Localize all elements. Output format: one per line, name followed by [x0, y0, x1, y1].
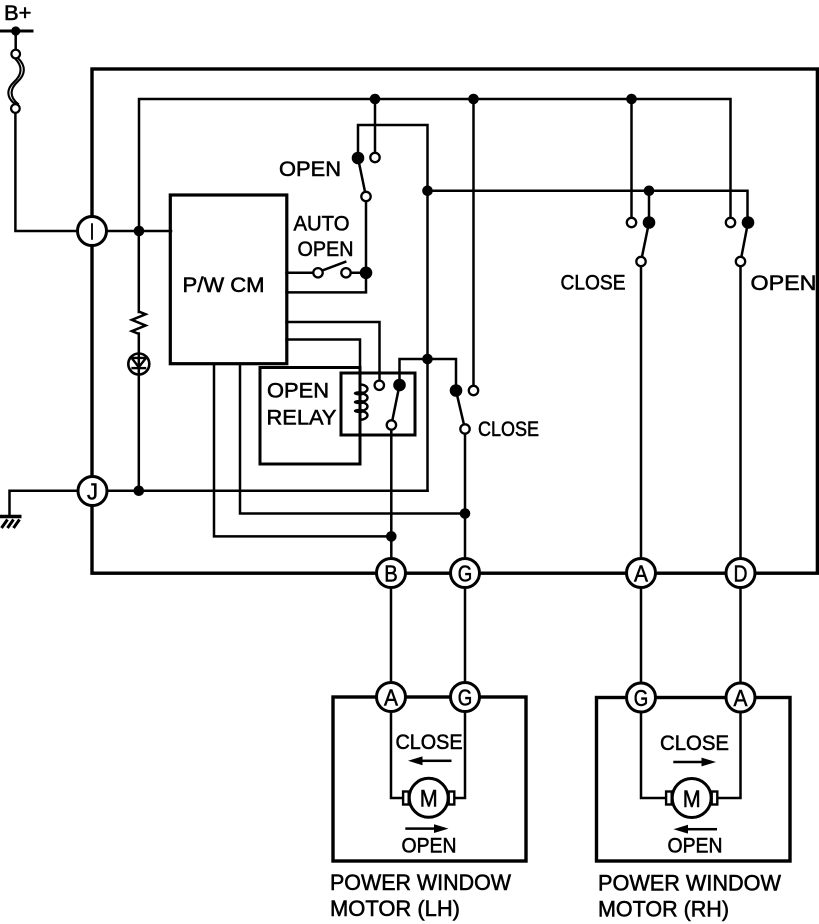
motor LH pin G	[451, 683, 480, 712]
driver OPEN switch fixed contact	[370, 153, 379, 162]
switch arm right OPEN	[741, 223, 749, 262]
driver OPEN switch moving contact dot	[352, 152, 365, 165]
fusible link terminal circle bottom	[11, 104, 20, 113]
svg-text:D: D	[734, 560, 748, 586]
wire node A to motor RH node G	[640, 587, 643, 698]
wire motor RH right lead	[717, 711, 741, 798]
junction dot LED bottom	[134, 485, 145, 496]
wire feed to passenger-close fixed contact x473	[472, 99, 475, 391]
svg-text:G: G	[634, 685, 649, 711]
node J	[78, 477, 107, 506]
junction dot bus y99 x473	[468, 94, 479, 105]
svg-text:A: A	[634, 560, 648, 586]
motor RH M2	[666, 779, 717, 818]
svg-text:OPEN: OPEN	[267, 379, 329, 403]
motor RH pin G	[627, 683, 656, 712]
wire right OPEN down to node D	[739, 262, 742, 574]
wire AUTO OPEN row right	[351, 272, 367, 275]
svg-text:A: A	[384, 684, 398, 710]
right CLOSE pole contact	[636, 257, 645, 266]
switch arm relay	[391, 385, 399, 425]
right OPEN moving contact dot	[742, 216, 755, 229]
switch arm passenger CLOSE	[456, 391, 465, 430]
svg-text:AUTO: AUTO	[294, 212, 350, 236]
wire stub to right CLOSE moving contact	[648, 191, 651, 223]
control unit outer box	[92, 69, 817, 573]
junction dot bus y99 x631	[626, 94, 637, 105]
svg-text:CLOSE: CLOSE	[561, 271, 626, 295]
wire motor LH right lead	[455, 711, 466, 798]
wire row y190 to right switches	[428, 191, 748, 223]
AUTO OPEN switch common dot	[360, 267, 373, 280]
junction dot row y190 x649	[644, 186, 655, 197]
AUTO OPEN switch left contact	[313, 268, 322, 277]
svg-text:P/W CM: P/W CM	[183, 274, 265, 297]
wire B+ to fusible link	[14, 31, 17, 50]
wire bracket from OPEN contact over to x427 down to J bus	[358, 125, 428, 491]
right CLOSE moving contact dot	[643, 216, 656, 229]
wire D from P/W CM to relay coil	[287, 340, 361, 385]
fusible link F1 curve 2	[12, 58, 24, 104]
motor LH M1	[403, 778, 454, 817]
resistor R1	[132, 312, 146, 334]
junction dot node I branch	[134, 226, 145, 237]
wire node D to motor RH node A	[739, 587, 742, 698]
wire motor RH left lead	[641, 711, 666, 798]
svg-text:MOTOR (LH): MOTOR (LH)	[330, 896, 460, 921]
svg-text:I: I	[90, 218, 95, 244]
svg-text:CLOSE: CLOSE	[396, 730, 463, 754]
junction dot bus y99 x375	[370, 94, 381, 105]
svg-text:A: A	[734, 685, 748, 711]
wire node I branch down to resistor	[138, 231, 141, 312]
relay fixed contact	[375, 381, 384, 390]
power window motor LH box	[333, 697, 526, 861]
fusible link terminal circle top	[11, 50, 20, 59]
node D	[726, 559, 755, 588]
wire AUTO OPEN row left	[287, 272, 315, 275]
wire resistor to LED to ground bus	[138, 334, 141, 491]
wire feed to driver OPEN switch fixed contact	[374, 99, 377, 158]
wire OPEN switch pole down to AUTO OPEN row	[287, 197, 367, 293]
relay pole contact	[387, 420, 396, 429]
svg-text:CLOSE: CLOSE	[660, 731, 729, 755]
passenger CLOSE fixed contact	[469, 386, 478, 395]
fusible link F1 curve 1	[8, 58, 20, 104]
wire right CLOSE down to node A	[640, 262, 643, 574]
svg-text:CLOSE: CLOSE	[478, 417, 539, 441]
right OPEN pole contact	[736, 257, 745, 266]
arrow motor RH open (left)	[674, 825, 718, 834]
junction dot relay row y359	[422, 354, 433, 365]
wire node B to motor LH node A	[390, 587, 393, 697]
arrow motor LH close (left)	[408, 756, 452, 765]
junction dot row y190 x427	[422, 186, 433, 197]
B+ terminal bar	[0, 30, 32, 33]
arrow motor RH close (right)	[673, 758, 716, 767]
svg-text:MOTOR (RH): MOTOR (RH)	[598, 897, 729, 922]
motor LH pin A	[377, 683, 406, 712]
power window motor RH box	[597, 698, 791, 862]
svg-text:M: M	[420, 786, 438, 813]
node B	[377, 559, 406, 588]
node A	[627, 559, 656, 588]
svg-text:OPEN: OPEN	[402, 834, 457, 858]
node I	[78, 217, 107, 246]
svg-text:B: B	[384, 560, 398, 586]
svg-text:POWER WINDOW: POWER WINDOW	[598, 871, 781, 896]
svg-text:OPEN: OPEN	[751, 271, 817, 295]
wire ground bus from J to x427	[10, 491, 428, 516]
open relay inner box K1	[341, 373, 415, 435]
wire feed to right CLOSE switch fixed contact x631	[630, 99, 633, 223]
open relay outer box	[260, 368, 360, 465]
motor RH pin A	[726, 683, 755, 712]
wire node G to motor LH node G	[464, 587, 467, 697]
wire P/W CM pin down x214 to row y536	[214, 364, 391, 537]
passenger CLOSE moving contact dot	[450, 384, 463, 397]
wire fusible link to node I	[15, 104, 171, 231]
wire bus y99 from x139 to right open switch	[139, 99, 731, 231]
wire motor LH left lead	[391, 711, 403, 798]
wire passenger CLOSE down to node G	[464, 429, 467, 573]
relay coil L1	[354, 385, 367, 420]
passenger CLOSE pole contact	[460, 424, 469, 433]
wire relay common row y359	[400, 359, 457, 391]
svg-text:B+: B+	[4, 1, 31, 25]
wire relay coil bottom return	[359, 420, 362, 464]
svg-text:POWER WINDOW: POWER WINDOW	[330, 870, 511, 895]
driver OPEN switch pole contact	[361, 192, 370, 201]
svg-text:RELAY: RELAY	[267, 406, 337, 430]
wire P/W CM pin down x240 to row y513	[240, 364, 465, 514]
svg-text:G: G	[458, 684, 473, 710]
junction dot row y536	[386, 531, 397, 542]
wire relay output down to node B	[390, 425, 393, 573]
svg-text:OPEN: OPEN	[668, 834, 723, 858]
P/W CM module box U1	[170, 195, 286, 364]
right CLOSE fixed contact	[627, 218, 636, 227]
wire C from P/W CM to relay fixed contact	[287, 322, 380, 385]
switch arm driver OPEN	[358, 158, 366, 197]
svg-text:M: M	[683, 786, 701, 813]
svg-text:G: G	[458, 560, 473, 586]
node G	[451, 559, 480, 588]
ground symbol	[0, 517, 22, 529]
switch arm right CLOSE	[641, 223, 649, 262]
junction dot row y513	[460, 508, 471, 519]
relay moving contact dot	[393, 379, 406, 392]
switch arm AUTO OPEN	[323, 262, 345, 270]
svg-text:J: J	[87, 478, 98, 504]
svg-text:OPEN: OPEN	[298, 237, 354, 261]
LED D1	[128, 354, 149, 375]
right OPEN fixed contact	[726, 218, 735, 227]
AUTO OPEN switch right contact	[341, 268, 350, 277]
svg-text:OPEN: OPEN	[279, 157, 341, 181]
arrow motor LH open (right)	[405, 824, 448, 833]
junction dot B+	[11, 26, 20, 35]
